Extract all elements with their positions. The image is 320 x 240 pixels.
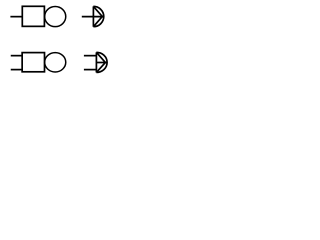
wire lead L5 [84,55,97,57]
semicircle signal D2 [96,52,107,72]
midline M2 [96,62,107,64]
wire lead L6 [84,69,97,71]
schematic: two rows of railway signal symbols [0,0,116,79]
triangle T1 [93,6,102,26]
wire lead L3 [11,55,22,57]
wire lead L1 [10,16,22,18]
circle C1 [45,6,66,26]
semicircle signal D1 [93,6,103,26]
square S1 [22,6,44,26]
triangle T2 [96,52,105,72]
wire lead L4 [11,69,22,71]
wire lead L2 with midline through signal [82,16,105,18]
circle C2 [45,53,66,72]
square S2 [22,53,44,72]
